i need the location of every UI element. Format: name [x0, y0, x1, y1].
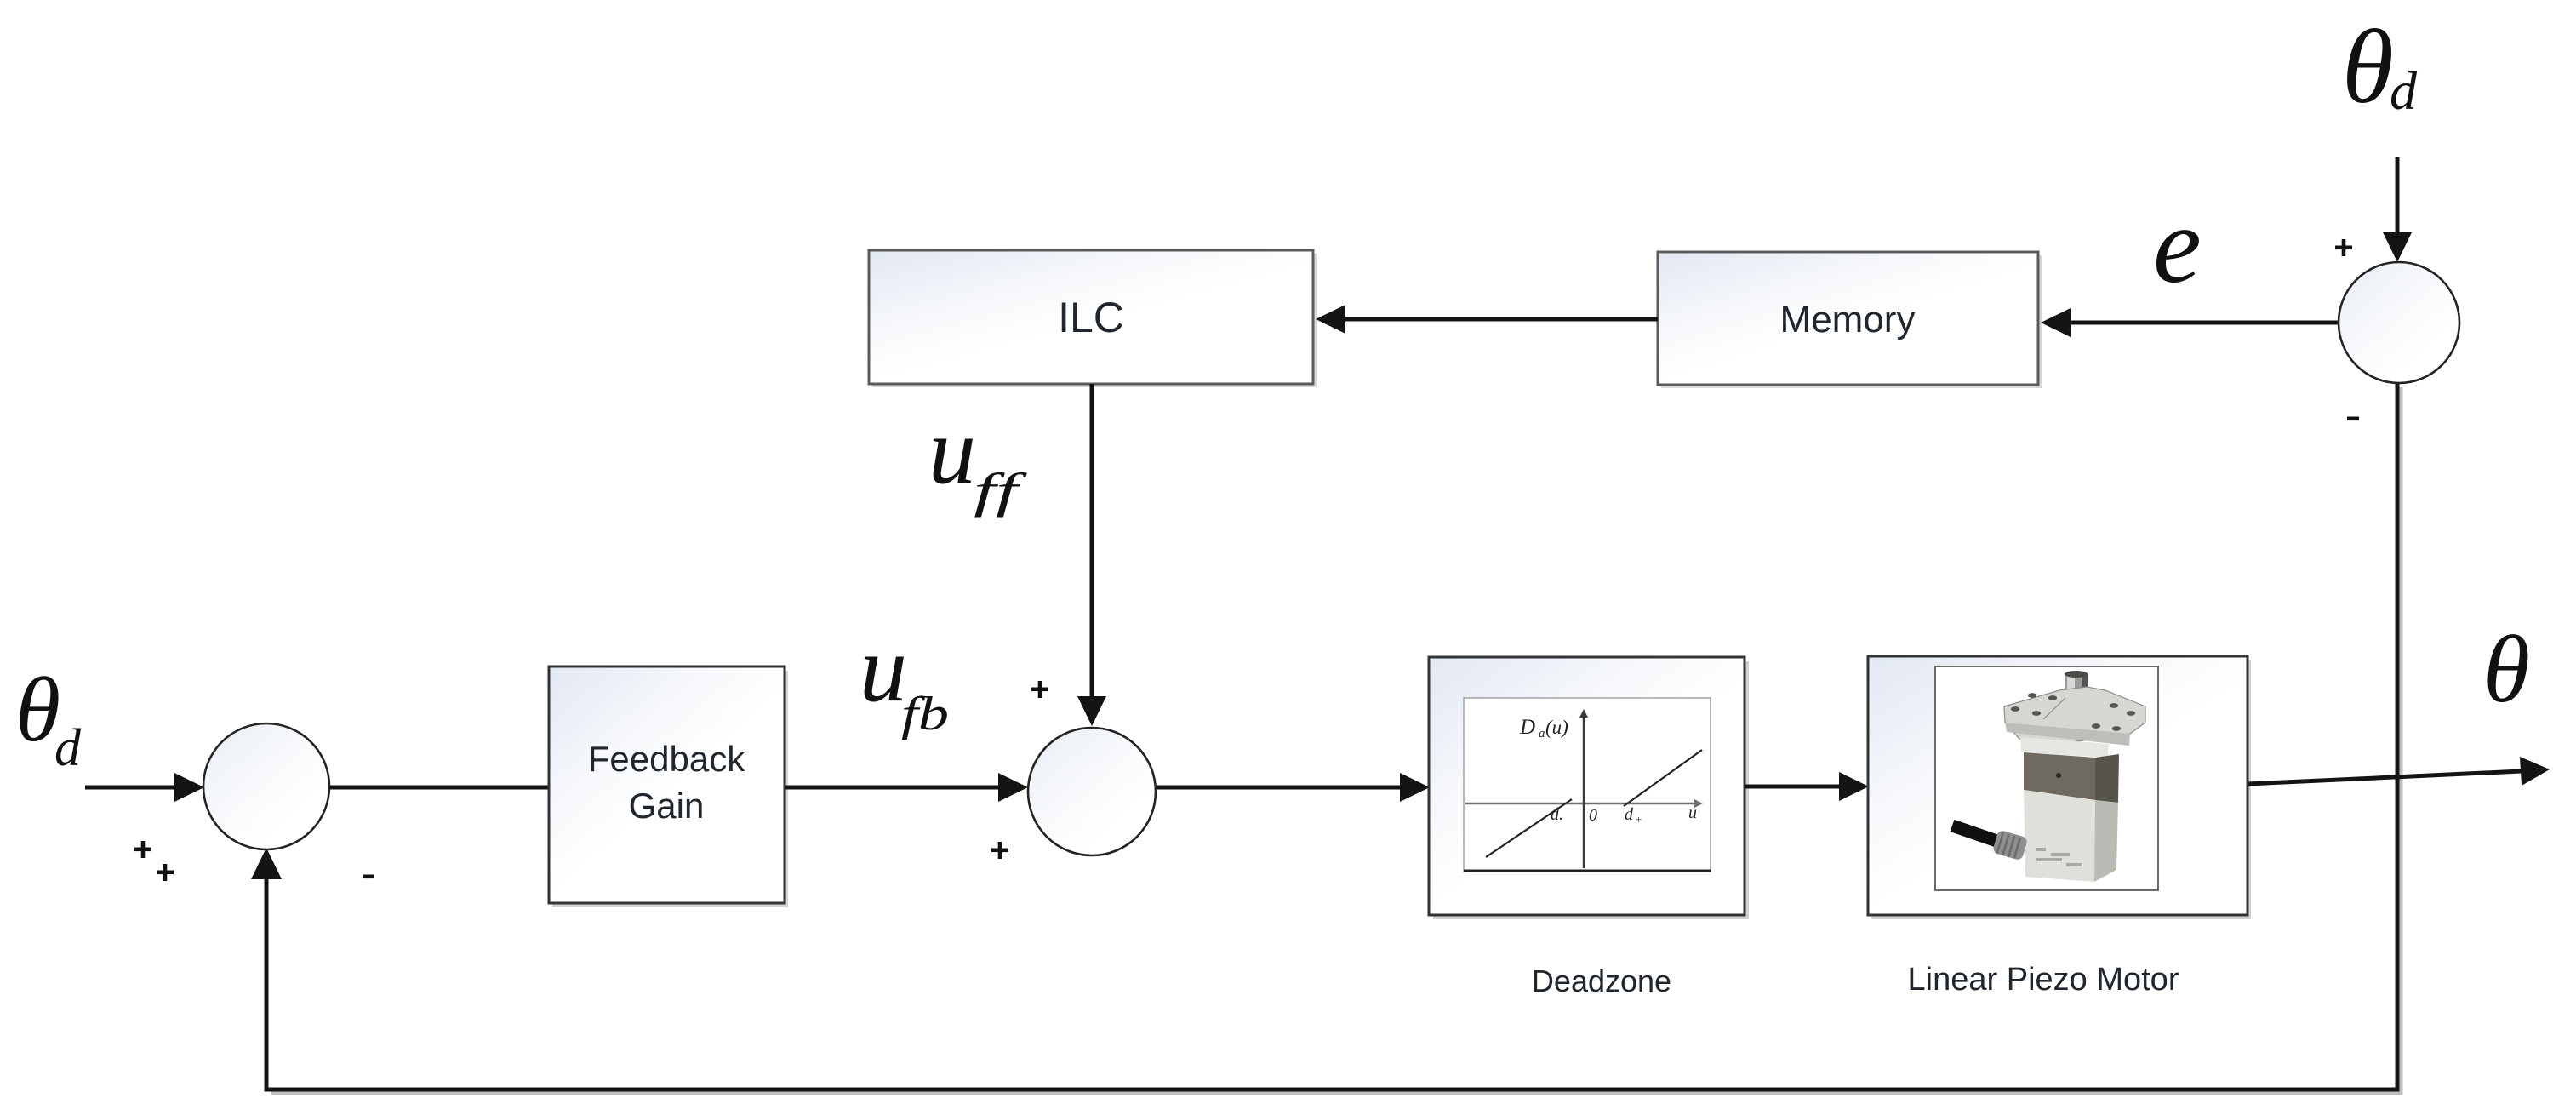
motor dark band	[2024, 752, 2119, 803]
deadzone graph v-axis	[1579, 709, 1588, 868]
deadzone tick label d+	[1625, 805, 1642, 826]
arrowhead: into Deadzone	[1400, 773, 1430, 802]
motor top flange	[2004, 687, 2145, 746]
label: plus sign upper at S1	[134, 841, 151, 858]
wire: S3 to Memory	[2068, 321, 2339, 325]
svg-text:fb: fb	[901, 688, 949, 740]
deadzone graph label Da(u)	[1519, 716, 1568, 740]
label: theta_d (left input)	[15, 660, 82, 777]
label: Linear Piezo Motor caption	[1908, 962, 2179, 998]
wire: Memory to ILC	[1343, 317, 1658, 322]
svg-text:+: +	[1636, 813, 1642, 826]
label: plus sign lower at S1	[157, 864, 174, 881]
svg-text:u: u	[1688, 803, 1697, 822]
svg-text:Deadzone: Deadzone	[1532, 963, 1671, 998]
svg-text:Feedback: Feedback	[588, 739, 745, 779]
svg-text:d.: d.	[1551, 805, 1563, 824]
block: Memory shadow	[1661, 255, 2042, 388]
label: minus sign below S3	[2347, 417, 2359, 421]
block: Deadzone shadow	[1433, 661, 1749, 919]
summing junction S3 (top right)	[2339, 262, 2459, 383]
wire: feedback bottom loop shadow	[271, 387, 2401, 1093]
label: plus sign top at S2	[1031, 681, 1048, 698]
svg-text:ff: ff	[974, 463, 1027, 518]
block: ILC	[869, 250, 1313, 384]
wire: Deadzone to Motor	[1745, 785, 1843, 789]
label: minus sign right of S1	[363, 875, 374, 879]
arrowhead: input into left summer	[174, 773, 204, 802]
motor neck	[2020, 737, 2109, 758]
arrowhead: into S3 from top	[2383, 232, 2412, 262]
arrowhead: feedback into left summer (up)	[251, 848, 282, 879]
arrowhead: output right	[2520, 757, 2550, 786]
arrowhead: into S2 from left	[998, 773, 1028, 802]
svg-text:u: u	[860, 616, 907, 722]
svg-text:θ: θ	[2342, 9, 2394, 125]
summing junction S2 (middle)	[1028, 728, 1156, 855]
deadzone inner graph panel	[1464, 698, 1711, 872]
svg-text:Gain: Gain	[629, 786, 705, 826]
deadzone tick label d-	[1551, 805, 1563, 824]
block: ILC shadow	[872, 254, 1317, 387]
block: Feedback Gain	[549, 666, 785, 903]
deadzone graph right segment	[1624, 750, 1702, 806]
wire: Motor output with theta arrow	[2248, 771, 2522, 784]
svg-text:ILC: ILC	[1058, 294, 1124, 341]
label: Deadzone caption	[1532, 963, 1671, 998]
deadzone tick label u	[1688, 803, 1697, 822]
arrowhead: into ILC right edge	[1316, 305, 1345, 334]
block: Memory	[1658, 252, 2038, 385]
deadzone graph left segment	[1486, 799, 1572, 857]
arrowhead: into Memory right edge	[2041, 308, 2071, 337]
block: Linear Piezo Motor box	[1868, 656, 2248, 915]
wire: theta_d down into S3	[2396, 157, 2400, 237]
motor shaft	[2065, 671, 2088, 733]
svg-text:a: a	[1539, 727, 1545, 740]
summing junction S1 (left)	[203, 723, 329, 849]
svg-text:0: 0	[1589, 806, 1597, 825]
wire: Feedback Gain to S2	[785, 786, 1002, 790]
wire: S2 to Deadzone	[1157, 786, 1404, 790]
label: u_ff	[928, 398, 1027, 518]
label: theta_d (top right)	[2342, 9, 2418, 125]
svg-text:e: e	[2153, 185, 2202, 306]
svg-text:Linear Piezo Motor: Linear Piezo Motor	[1908, 962, 2179, 998]
svg-text:d: d	[2390, 60, 2418, 121]
block: Linear Piezo Motor shadow	[1871, 660, 2251, 919]
wire: input from theta_d	[85, 786, 180, 790]
wire: feedback bottom loop (output tap down, across bottom, up to left summer)	[266, 383, 2397, 1089]
label: u_fb	[860, 616, 949, 740]
motor lower body	[2024, 790, 2118, 882]
wire: ILC down to S2	[1090, 384, 1094, 700]
label: plus sign at S3	[2335, 239, 2352, 256]
label: theta (output)	[2483, 617, 2530, 723]
motor photo drawing	[1952, 671, 2145, 882]
svg-text:d: d	[1625, 805, 1634, 824]
wire: S1 to Feedback Gain	[329, 786, 549, 790]
svg-text:u: u	[928, 398, 976, 504]
svg-text:θ: θ	[2483, 617, 2530, 723]
block: Feedback Gain shadow	[552, 671, 788, 907]
arrowhead: into S2 from top	[1077, 696, 1106, 726]
deadzone graph h-axis	[1465, 799, 1703, 808]
label: plus sign lower-left at S2	[991, 842, 1008, 859]
block: Deadzone box	[1429, 657, 1745, 915]
label: e (error)	[2153, 185, 2202, 306]
svg-text:(u): (u)	[1545, 717, 1568, 738]
svg-text:Memory: Memory	[1780, 299, 1916, 340]
motor cable	[1952, 826, 2028, 861]
motor photo frame	[1935, 666, 2158, 890]
svg-text:d: d	[54, 719, 82, 777]
arrowhead: into Motor	[1839, 772, 1869, 801]
svg-text:D: D	[1519, 716, 1535, 739]
deadzone tick label 0	[1589, 806, 1597, 825]
